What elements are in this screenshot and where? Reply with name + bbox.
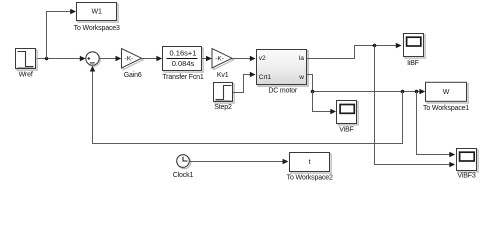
block t To Workspace2 [287, 153, 333, 182]
node Ia branch [373, 44, 377, 48]
wire Transfer Fcn1 to Kv1 [202, 58, 211, 60]
node w to VIBF3 tap [415, 90, 419, 94]
svg-text:ViBF3: ViBF3 [457, 173, 475, 180]
block W To Workspace1 [423, 82, 469, 112]
arrow into VIBF [330, 109, 336, 114]
gain Kv1 [212, 49, 234, 80]
svg-text:t: t [309, 159, 311, 166]
arrow into Transfer Fcn1 [156, 56, 162, 61]
svg-text:0.084s: 0.084s [172, 59, 195, 68]
arrow into Kv1 [206, 56, 212, 61]
svg-text:W1: W1 [91, 9, 102, 16]
wire Ia to scope IiBF [307, 46, 401, 59]
arrow into v2 [250, 56, 256, 61]
node junction to W1 branch [45, 57, 49, 61]
svg-text:Wref: Wref [19, 71, 33, 78]
sum junction [86, 52, 101, 67]
svg-text:v2: v2 [259, 55, 266, 62]
wire Wref to Sum [36, 58, 85, 60]
wire branch up to W1 [47, 12, 75, 59]
svg-text:IiBF: IiBF [407, 60, 419, 67]
svg-text:Kv1: Kv1 [217, 72, 229, 79]
node feedback tap [401, 90, 405, 94]
svg-text:Transfer Fcn1: Transfer Fcn1 [162, 74, 204, 81]
svg-text:-K-: -K- [215, 56, 224, 63]
svg-text:ViBF: ViBF [339, 126, 353, 133]
svg-text:Step2: Step2 [214, 104, 232, 111]
wire Sum to Gain6 [99, 58, 120, 60]
arrow into Gain6 [116, 56, 122, 61]
svg-text:Gain6: Gain6 [124, 72, 142, 79]
wire Gain6 to Transfer Fcn1 [142, 58, 162, 60]
wire w to workspace W [307, 75, 425, 92]
svg-text:Crt1: Crt1 [259, 74, 272, 81]
wire Kv1 to DC motor v2 [232, 58, 254, 60]
block Step2 [214, 83, 235, 111]
wire w down to VIBF3 upper input [417, 92, 455, 155]
arrow into W1 [70, 9, 76, 14]
svg-text:0.16s+1: 0.16s+1 [170, 49, 197, 58]
subsystem DC motor [257, 50, 309, 95]
block W1 To Workspace3 [74, 3, 120, 32]
wire feedback to Sum [93, 67, 403, 144]
scope VIBF3 [457, 149, 479, 180]
wire Ia branch down to VIBF3 lower input [375, 46, 455, 165]
wire Clock1 to t [189, 161, 287, 163]
svg-text:w: w [298, 74, 304, 81]
wire w down to scope VIBF [313, 92, 335, 112]
svg-text:Ia: Ia [299, 55, 305, 62]
svg-text:W: W [443, 89, 450, 96]
arrow into VIBF3 upper [449, 152, 455, 157]
arrow into W [419, 89, 425, 94]
arrow into IiBF [396, 43, 402, 48]
arrow into Sum bottom [90, 66, 95, 72]
block Transfer Fcn1 [162, 47, 204, 81]
scope VIBF [337, 101, 359, 134]
svg-text:To Workspace3: To Workspace3 [74, 25, 120, 32]
arrow into VIBF3 lower [449, 162, 455, 167]
node w branch to VIBF [311, 90, 315, 94]
svg-text:To Workspace2: To Workspace2 [287, 174, 333, 181]
svg-text:To Workspace1: To Workspace1 [423, 105, 469, 112]
arrow into Crt1 [250, 72, 256, 77]
arrow into t [283, 159, 289, 164]
svg-text:Clock1: Clock1 [173, 172, 194, 179]
scope IiBF [404, 34, 426, 68]
arrow into Sum left [80, 56, 86, 61]
gain Gain6 [122, 49, 144, 80]
svg-text:-K-: -K- [125, 56, 134, 63]
svg-text:DC motor: DC motor [268, 88, 298, 95]
clock Clock1 [173, 155, 194, 179]
wire Step2 to Crt1 [233, 75, 254, 93]
block Wref step source [16, 49, 38, 79]
